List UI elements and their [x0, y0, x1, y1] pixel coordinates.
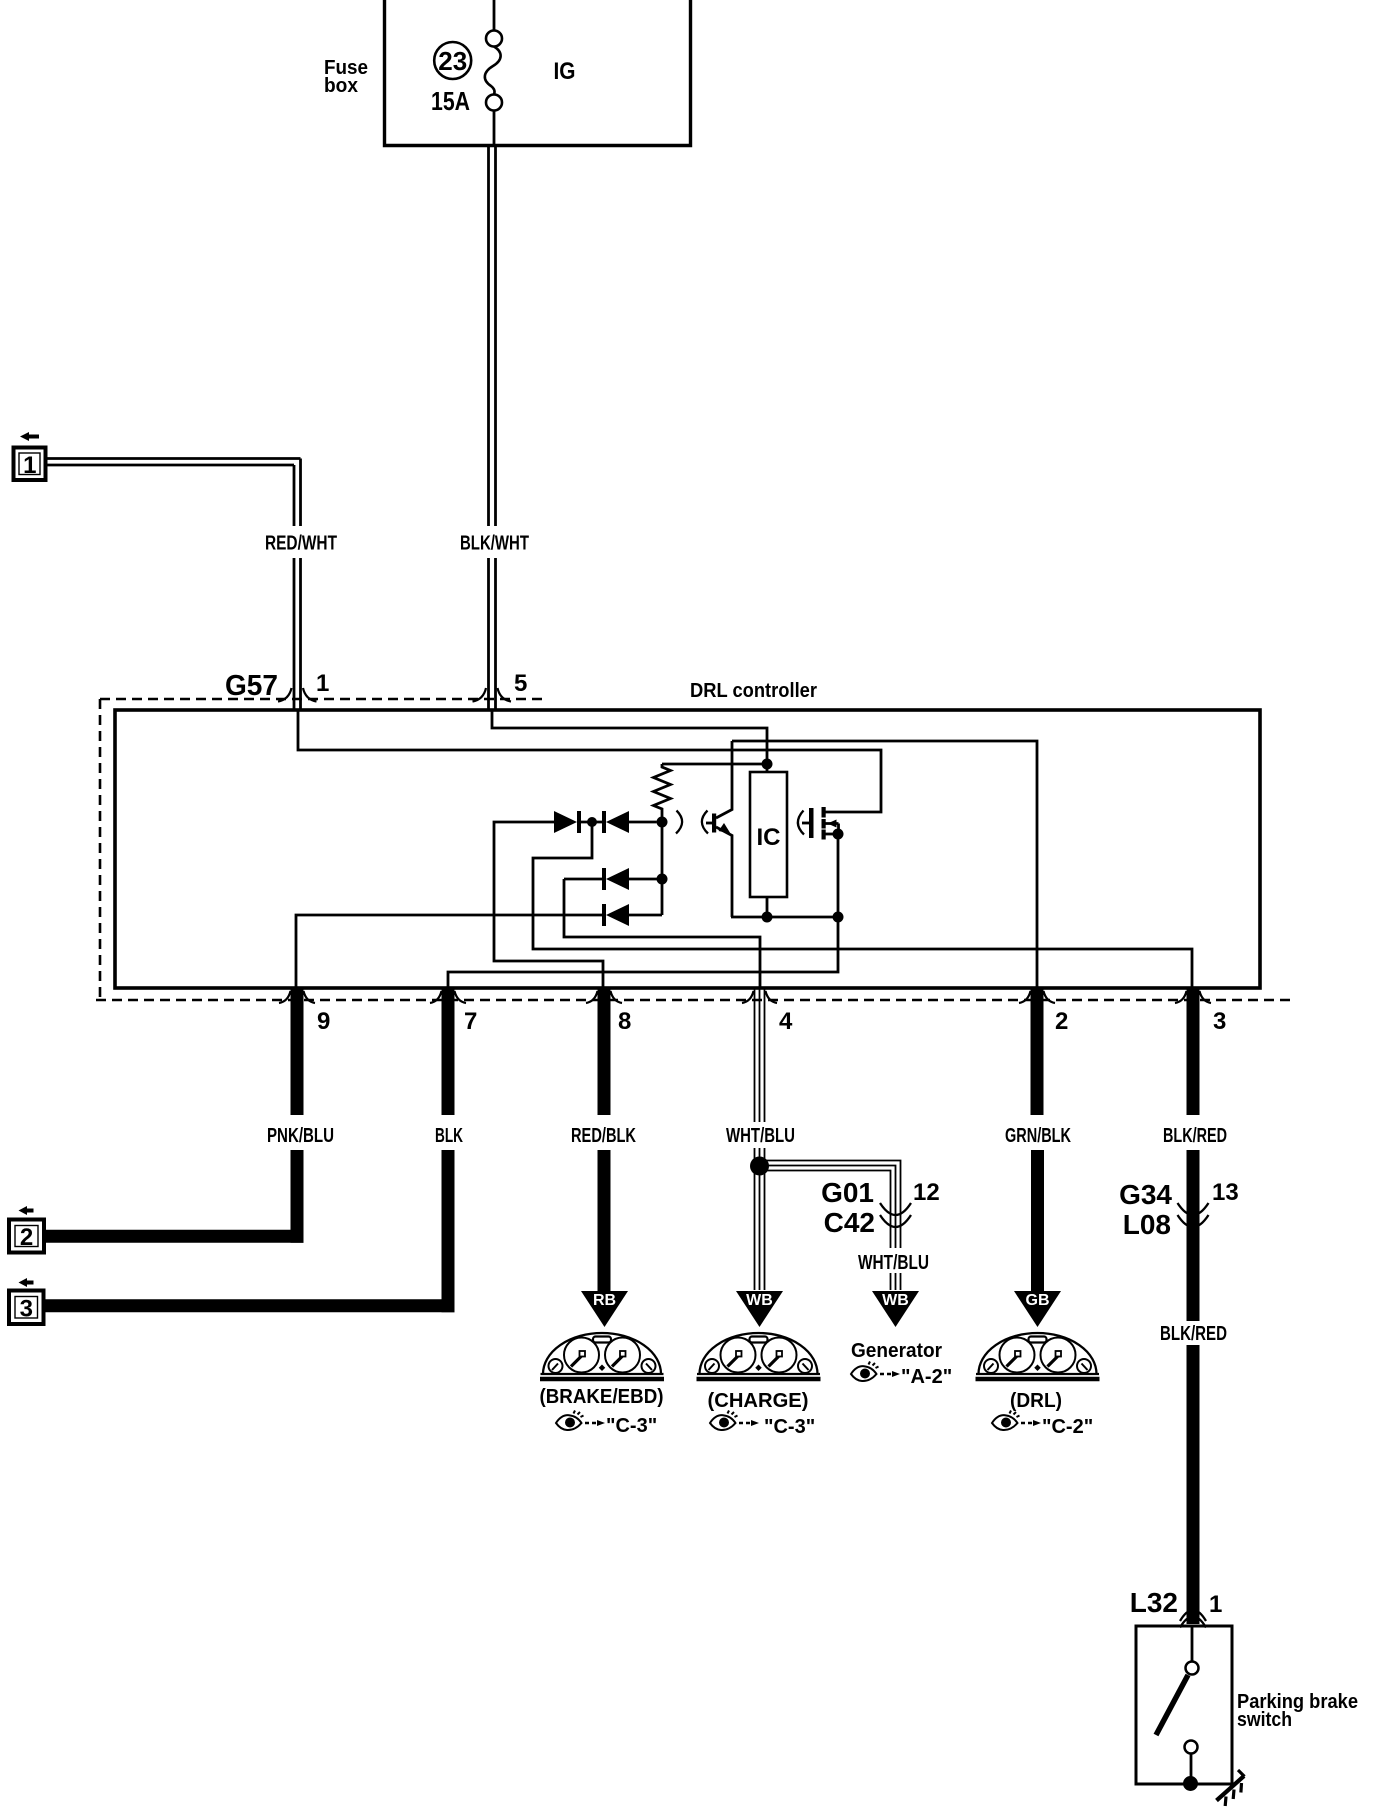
- wire PNK/BLU horizontal: [44, 1230, 304, 1243]
- node E junction dot: [657, 817, 668, 828]
- svg-text:12: 12: [913, 1179, 940, 1206]
- svg-text:IC: IC: [757, 824, 781, 851]
- wire hop arc left of Q2 gate: [798, 811, 804, 835]
- wire RED/WHT vertical lower: [294, 558, 301, 710]
- diode D3: [564, 868, 662, 890]
- wire GRN/BLK lower: [1031, 1150, 1044, 1292]
- svg-text:2: 2: [20, 1224, 33, 1251]
- wire BLK/WHT upper: [489, 146, 496, 527]
- fuse number 23 circled: [434, 42, 471, 79]
- wire BLK upper: [442, 988, 455, 1115]
- wire node E to node F to D4: [661, 822, 664, 915]
- switch blade: [1156, 1675, 1188, 1735]
- wire Q1 base lead: [706, 822, 712, 825]
- svg-text:BLK/WHT: BLK/WHT: [460, 533, 529, 555]
- svg-text:RB: RB: [593, 1292, 616, 1309]
- transistor Q2 MOSFET: [802, 807, 839, 840]
- svg-text:L32: L32: [1130, 1587, 1178, 1618]
- svg-text:"C-2": "C-2": [1042, 1416, 1093, 1438]
- wire fuse to box bottom: [493, 111, 496, 146]
- wire RED/WHT horizontal: [46, 459, 301, 466]
- wire BLK/RED upper: [1187, 988, 1200, 1115]
- svg-text:"C-3": "C-3": [764, 1416, 815, 1438]
- DRL controller solid box: [115, 710, 1260, 988]
- svg-text:2: 2: [1055, 1008, 1068, 1035]
- svg-text:3: 3: [1213, 1008, 1226, 1035]
- node B junction dot: [762, 912, 773, 923]
- wire branch to G01 connector: [760, 1161, 901, 1249]
- pin 1 collar flare: [278, 688, 317, 702]
- svg-text:L08: L08: [1123, 1209, 1171, 1240]
- svg-text:GRN/BLK: GRN/BLK: [1005, 1125, 1071, 1147]
- wire into fuse top: [493, 0, 496, 31]
- wire BLK horizontal: [44, 1299, 455, 1312]
- node G junction dot ground: [833, 912, 844, 923]
- transistor Q1: [712, 741, 732, 917]
- fuse box outline: [385, 0, 691, 146]
- connector 3 arrow: [19, 1278, 34, 1287]
- svg-text:BLK/RED: BLK/RED: [1163, 1125, 1227, 1147]
- eye ref A-2: [851, 1362, 952, 1389]
- node H junction dot: [750, 1157, 769, 1176]
- wire hop arc right of node E: [676, 811, 682, 834]
- svg-text:C42: C42: [824, 1207, 875, 1238]
- svg-text:WHT/BLU: WHT/BLU: [858, 1252, 929, 1274]
- svg-text:9: 9: [317, 1008, 330, 1035]
- svg-text:WB: WB: [746, 1292, 773, 1309]
- svg-text:(CHARGE): (CHARGE): [708, 1390, 809, 1412]
- wire WHT/BLU lower: [755, 1148, 765, 1290]
- svg-text:PNK/BLU: PNK/BLU: [267, 1125, 334, 1147]
- svg-text:switch: switch: [1237, 1709, 1292, 1731]
- label Fuse box: [324, 57, 368, 97]
- fuse F23 symbol: [485, 31, 502, 111]
- switch ground dot: [1183, 1776, 1198, 1791]
- wire pin1 to MOSFET drain: [298, 710, 881, 812]
- svg-text:(BRAKE/EBD): (BRAKE/EBD): [540, 1386, 664, 1408]
- connector G57 dashed boundary: [100, 698, 545, 701]
- svg-text:3: 3: [20, 1296, 33, 1323]
- pin 2 collar flare: [1019, 991, 1055, 1003]
- parking brake switch box: [1136, 1626, 1232, 1784]
- svg-text:BLK/RED: BLK/RED: [1160, 1323, 1227, 1345]
- wire BLK/WHT lower: [489, 558, 496, 710]
- svg-text:G01: G01: [821, 1177, 874, 1208]
- svg-text:1: 1: [23, 452, 36, 479]
- wire D3 cathode to pin4: [564, 879, 760, 988]
- connector 2 box: [9, 1220, 44, 1253]
- wire RED/BLK upper: [598, 988, 611, 1115]
- pin 5 collar flare: [473, 688, 512, 702]
- wire collector to pin2: [732, 741, 1037, 988]
- svg-text:DRL controller: DRL controller: [690, 680, 817, 702]
- wire WHT/BLU upper: [755, 988, 765, 1122]
- wire BLK/RED lower: [1187, 1345, 1200, 1624]
- wire PNK/BLU upper: [291, 988, 304, 1115]
- wire pin8 riser to diode row: [494, 822, 603, 988]
- svg-text:BLK: BLK: [435, 1125, 463, 1147]
- svg-text:7: 7: [464, 1008, 477, 1035]
- diode D2: [602, 811, 657, 833]
- wire branch lower: [891, 1273, 901, 1290]
- connector 2 arrow: [19, 1206, 34, 1215]
- resistor R1: [654, 764, 671, 822]
- svg-text:RED/WHT: RED/WHT: [265, 533, 337, 555]
- pin 7 collar flare: [430, 991, 466, 1003]
- connector G34/L08 chevrons: [1178, 1203, 1209, 1227]
- svg-text:"C-3": "C-3": [606, 1415, 657, 1437]
- svg-text:13: 13: [1212, 1179, 1239, 1206]
- switch wire top: [1191, 1626, 1194, 1662]
- wire BLK lower: [442, 1150, 455, 1312]
- svg-text:RED/BLK: RED/BLK: [571, 1125, 636, 1147]
- pin 4 collar flare: [742, 991, 777, 1003]
- eye ref C-2: [992, 1411, 1093, 1439]
- node A junction dot: [762, 759, 773, 770]
- wire RED/WHT vertical upper: [294, 459, 301, 527]
- switch contact bottom: [1185, 1741, 1198, 1754]
- chassis ground symbol: [1217, 1770, 1245, 1806]
- wire pin5 to IC top: [492, 710, 767, 760]
- svg-text:4: 4: [779, 1008, 793, 1035]
- arrow RB: [581, 1291, 628, 1327]
- svg-text:Generator: Generator: [851, 1340, 942, 1362]
- wire ground bus: [448, 917, 838, 988]
- connector L32 chevrons: [1180, 1610, 1206, 1628]
- wire PNK/BLU lower: [291, 1150, 304, 1243]
- svg-text:WB: WB: [882, 1292, 909, 1309]
- svg-text:IG: IG: [554, 58, 576, 85]
- wire BLK/RED middle: [1187, 1150, 1200, 1321]
- gauge icon BRAKE/EBD: [540, 1333, 664, 1379]
- wire node D to pin3: [533, 822, 1192, 988]
- switch wire bottom: [1190, 1754, 1193, 1778]
- dashed box left side: [99, 699, 102, 1000]
- node F junction dot: [657, 874, 668, 885]
- connector G01/C42 chevrons: [880, 1203, 911, 1227]
- op-amp IC U1: [750, 764, 787, 917]
- svg-text:5: 5: [514, 670, 527, 697]
- label Parking brake switch: [1237, 1691, 1358, 1731]
- node D junction dot: [587, 817, 597, 827]
- arrow WB charge: [736, 1291, 783, 1327]
- gauge icon DRL: [976, 1333, 1100, 1379]
- wire pin9 to diode D4: [296, 915, 602, 988]
- diode D1: [554, 811, 602, 833]
- svg-text:WHT/BLU: WHT/BLU: [726, 1125, 795, 1147]
- dashed box bottom: [96, 999, 1290, 1002]
- svg-text:"A-2": "A-2": [901, 1366, 952, 1388]
- wire GRN/BLK upper: [1031, 988, 1044, 1115]
- connector 3 box: [9, 1291, 44, 1325]
- wire RED/BLK lower: [598, 1150, 611, 1292]
- svg-text:G34: G34: [1119, 1179, 1172, 1210]
- arrow GB: [1014, 1291, 1061, 1327]
- node C junction dot MOSFET source: [833, 829, 844, 840]
- eye ref C-3: [556, 1411, 657, 1438]
- eye ref C-3 charge: [710, 1411, 815, 1439]
- svg-text:15A: 15A: [431, 86, 470, 116]
- switch contact top: [1186, 1662, 1199, 1675]
- pin 8 collar flare: [586, 991, 622, 1003]
- svg-text:1: 1: [316, 670, 329, 697]
- connector 1 arrow: [20, 432, 39, 441]
- pin 3 collar flare: [1175, 991, 1211, 1003]
- svg-text:(DRL): (DRL): [1010, 1390, 1062, 1412]
- svg-text:box: box: [324, 75, 358, 97]
- arrow WB generator: [872, 1291, 919, 1327]
- wire resistor top to node A: [662, 763, 767, 766]
- pin 9 collar flare: [279, 991, 315, 1003]
- svg-text:GB: GB: [1026, 1292, 1050, 1309]
- gauge icon CHARGE: [697, 1333, 821, 1379]
- wire hop arc left of Q1 base: [702, 811, 708, 834]
- diode D4: [602, 904, 662, 926]
- wire MOSFET source down: [837, 834, 840, 917]
- connector 1 box: [14, 448, 46, 481]
- svg-text:1: 1: [1209, 1591, 1222, 1618]
- svg-text:23: 23: [438, 46, 467, 76]
- svg-text:8: 8: [618, 1008, 631, 1035]
- svg-text:G57: G57: [225, 670, 278, 702]
